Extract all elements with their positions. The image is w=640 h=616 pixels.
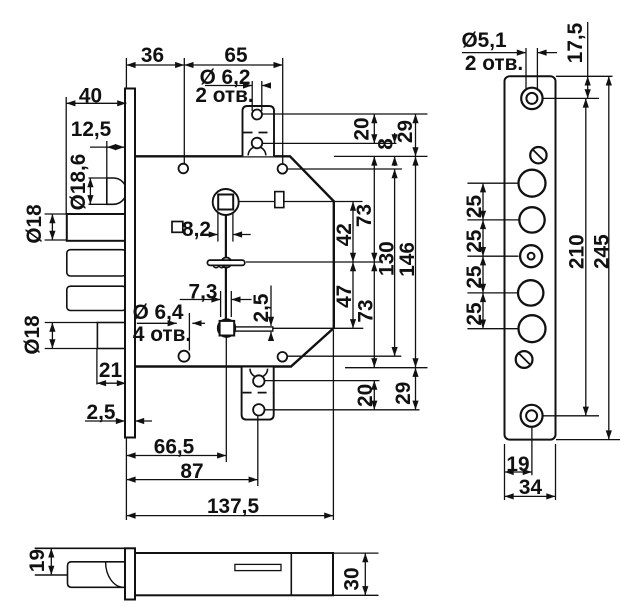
svg-text:25: 25 (463, 195, 486, 218)
svg-text:25: 25 (463, 266, 486, 289)
svg-text:2,5: 2,5 (250, 294, 273, 323)
svg-text:245: 245 (591, 234, 614, 269)
svg-text:2,5: 2,5 (87, 401, 116, 424)
svg-text:29: 29 (392, 382, 415, 405)
svg-text:65: 65 (224, 44, 247, 67)
svg-text:66,5: 66,5 (154, 436, 194, 459)
svg-text:Ø18: Ø18 (21, 315, 44, 354)
svg-text:Ø18,6: Ø18,6 (67, 154, 90, 211)
svg-text:137,5: 137,5 (207, 495, 259, 518)
svg-text:2 отв.: 2 отв. (195, 84, 253, 107)
svg-text:25: 25 (463, 230, 486, 253)
svg-text:34: 34 (519, 476, 543, 499)
svg-text:Ø5,1: Ø5,1 (461, 29, 506, 52)
svg-text:47: 47 (333, 285, 356, 308)
svg-text:2 отв.: 2 отв. (465, 52, 523, 75)
svg-text:20: 20 (354, 384, 377, 407)
svg-text:19: 19 (506, 453, 529, 476)
svg-text:7,3: 7,3 (189, 281, 218, 304)
svg-text:73: 73 (355, 299, 378, 322)
svg-text:Ø 6,4: Ø 6,4 (133, 301, 184, 324)
svg-text:146: 146 (396, 242, 419, 277)
svg-text:Ø18: Ø18 (23, 204, 46, 243)
svg-text:29: 29 (394, 120, 417, 143)
svg-text:8,2: 8,2 (182, 218, 211, 241)
svg-text:25: 25 (463, 302, 486, 325)
svg-text:73: 73 (353, 204, 376, 227)
svg-text:36: 36 (141, 44, 164, 67)
svg-text:30: 30 (341, 567, 364, 590)
svg-text:42: 42 (333, 223, 356, 246)
svg-text:40: 40 (79, 85, 102, 108)
svg-text:21: 21 (99, 359, 122, 382)
svg-text:20: 20 (351, 117, 374, 140)
svg-text:19: 19 (26, 549, 49, 572)
svg-text:87: 87 (180, 460, 203, 483)
svg-text:12,5: 12,5 (71, 118, 111, 141)
svg-text:4 отв.: 4 отв. (133, 323, 191, 346)
svg-text:210: 210 (565, 234, 588, 269)
svg-text:17,5: 17,5 (564, 23, 587, 63)
